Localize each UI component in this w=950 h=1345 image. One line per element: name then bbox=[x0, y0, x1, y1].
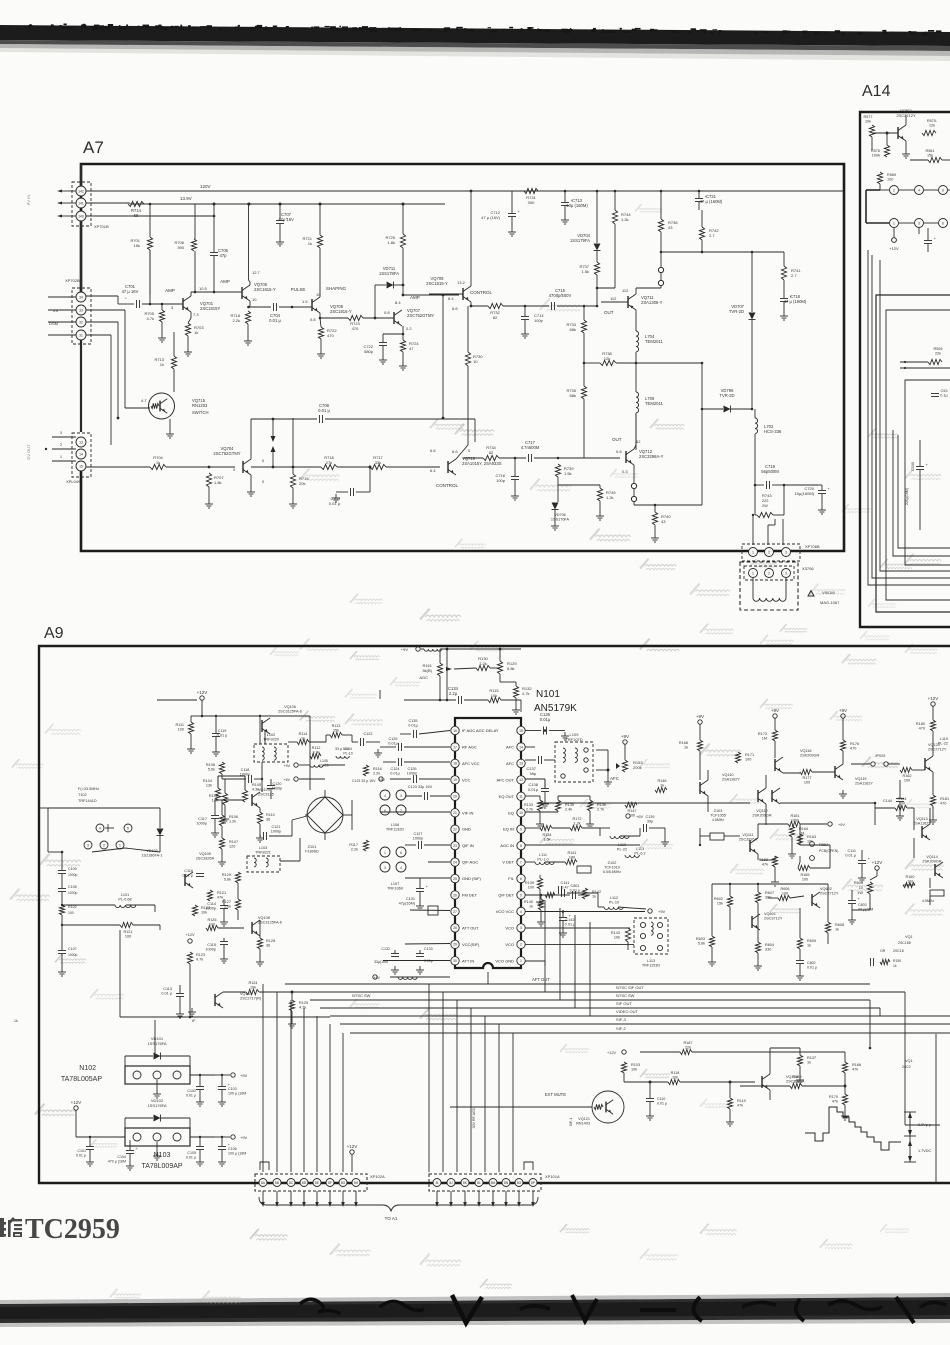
svg-text:8M: 8M bbox=[491, 1181, 496, 1185]
svg-text:1SS176FA: 1SS176FA bbox=[147, 1103, 166, 1108]
svg-text:47 μ (160M): 47 μ (160M) bbox=[784, 299, 807, 304]
svg-text:C126: C126 bbox=[407, 767, 416, 771]
wire l101 bbox=[62, 904, 115, 906]
svg-text:19: 19 bbox=[453, 778, 457, 782]
svg-text:R114: R114 bbox=[299, 732, 308, 736]
resistor R121a bbox=[207, 890, 212, 901]
open terminal circles bottom bbox=[631, 483, 636, 488]
svg-text:1.2k: 1.2k bbox=[606, 495, 614, 500]
wire VQ707 emitter bbox=[402, 326, 404, 334]
coil L101 bbox=[115, 905, 136, 908]
IC N101 pin 24 bbox=[451, 858, 459, 866]
wire r132 bbox=[500, 681, 516, 683]
connector XP101A pin 7 bbox=[515, 1179, 523, 1187]
svg-text:1SS176FA: 1SS176FA bbox=[147, 1041, 166, 1046]
resistor R113 bbox=[330, 732, 342, 737]
wire c530 bbox=[919, 440, 921, 466]
wire C707 bbox=[279, 204, 281, 220]
wire c136a bbox=[525, 730, 541, 732]
resistor R730 bbox=[465, 352, 470, 366]
svg-text:9: 9 bbox=[520, 828, 522, 832]
svg-text:2SC2712Y: 2SC2712Y bbox=[928, 748, 947, 752]
resistor R717 bbox=[370, 464, 386, 469]
svg-text:1k: 1k bbox=[529, 905, 533, 909]
resistor R162b bbox=[772, 856, 777, 867]
svg-text:PL-22: PL-22 bbox=[938, 742, 948, 746]
A14 inner box1 bbox=[876, 295, 950, 612]
resistor R706 bbox=[191, 239, 196, 251]
svg-text:C107: C107 bbox=[68, 947, 77, 951]
wire eq3 bbox=[600, 827, 610, 829]
capacitor C131 bbox=[416, 888, 424, 890]
svg-text:82: 82 bbox=[489, 450, 494, 455]
terminal +12V mute bbox=[622, 1050, 626, 1054]
resistor R606 bbox=[778, 895, 790, 900]
capacitor C803 bbox=[848, 900, 856, 902]
svg-text:13.2: 13.2 bbox=[457, 280, 466, 285]
wire VQ706 collector bbox=[319, 248, 321, 297]
wire a14 top bbox=[872, 132, 898, 134]
svg-text:R139: R139 bbox=[525, 881, 534, 885]
svg-text:C127: C127 bbox=[413, 832, 422, 836]
svg-text:15k: 15k bbox=[927, 154, 933, 158]
svg-text:6.6: 6.6 bbox=[452, 306, 458, 311]
svg-text:Mφ: Mφ bbox=[530, 771, 536, 776]
svg-text:36: 36 bbox=[266, 818, 270, 822]
svg-text:2SC752GTMY: 2SC752GTMY bbox=[213, 451, 240, 456]
resistor R725 bbox=[400, 234, 405, 248]
wires vq113 bbox=[875, 807, 895, 809]
svg-text:10: 10 bbox=[473, 359, 478, 364]
svg-text:33: 33 bbox=[79, 308, 83, 312]
transistor VQ114 bbox=[934, 864, 936, 876]
svg-text:C106: C106 bbox=[228, 1147, 237, 1151]
capacitor C121 bbox=[263, 832, 265, 840]
svg-text:AFT OUT: AFT OUT bbox=[532, 977, 550, 982]
svg-text:R127: R127 bbox=[222, 900, 231, 904]
svg-text:6.6: 6.6 bbox=[430, 448, 436, 453]
svg-text:5.6k: 5.6k bbox=[224, 905, 231, 909]
svg-text:2SC1815-Y: 2SC1815-Y bbox=[426, 281, 448, 286]
svg-text:1000p: 1000p bbox=[68, 953, 78, 957]
svg-text:10k: 10k bbox=[491, 693, 497, 698]
svg-text:VQ119: VQ119 bbox=[855, 777, 867, 781]
wire r114 r113 bbox=[288, 741, 297, 743]
resistor R168 bbox=[697, 740, 702, 751]
capacitor C705 bbox=[350, 488, 352, 496]
svg-text:10k: 10k bbox=[865, 120, 871, 124]
IC N101 pin 3 bbox=[517, 924, 525, 932]
svg-text:SIF-3: SIF-3 bbox=[616, 1017, 627, 1022]
svg-text:14: 14 bbox=[79, 452, 83, 456]
svg-text:R160: R160 bbox=[905, 875, 914, 879]
svg-text:NTSC SIF OUT: NTSC SIF OUT bbox=[616, 985, 644, 990]
terminal +9V a9l bbox=[294, 763, 298, 767]
svg-text:141: 141 bbox=[78, 201, 84, 205]
resistor R136 bbox=[587, 800, 592, 811]
svg-text:142: 142 bbox=[78, 189, 84, 193]
capacitor C132 C133 bbox=[391, 953, 399, 955]
svg-text:Z102: Z102 bbox=[608, 861, 617, 865]
svg-text:26: 26 bbox=[453, 893, 457, 897]
resistor R133 bbox=[537, 800, 542, 811]
svg-text:8G: 8G bbox=[341, 1181, 346, 1185]
wire r526 row bbox=[900, 361, 928, 363]
svg-text:+9V: +9V bbox=[401, 647, 409, 652]
svg-text:VCC(SIF): VCC(SIF) bbox=[462, 942, 480, 947]
IC N101 pin 29 bbox=[451, 940, 459, 948]
svg-text:VQ105: VQ105 bbox=[199, 852, 211, 856]
wire R725 bbox=[402, 204, 404, 234]
svg-text:2SA1162Y: 2SA1162Y bbox=[913, 822, 931, 826]
svg-text:XPL049: XPL049 bbox=[66, 479, 81, 484]
svg-text:100: 100 bbox=[887, 178, 893, 182]
wire c126 bbox=[390, 778, 411, 780]
wire n103 caps bbox=[89, 1137, 91, 1146]
capacitor C712 bbox=[508, 213, 516, 215]
svg-text:2: 2 bbox=[400, 809, 402, 813]
wire vq110 bbox=[699, 751, 701, 780]
coil L103 bbox=[247, 856, 280, 872]
svg-text:V901M: V901M bbox=[822, 590, 835, 595]
svg-text:PL-0.68: PL-0.68 bbox=[118, 898, 131, 902]
connector XP101A pin 8 bbox=[529, 1179, 537, 1187]
wire l103 cluster bbox=[280, 860, 300, 862]
svg-text:L102: L102 bbox=[267, 733, 275, 737]
svg-text:47μ 16V: 47μ 16V bbox=[278, 217, 294, 222]
junction dots A9 bbox=[544, 729, 547, 732]
svg-text:R171: R171 bbox=[745, 753, 754, 757]
wire mid cluster bbox=[221, 800, 223, 815]
svg-text:4.5MHz: 4.5MHz bbox=[922, 899, 934, 903]
resistor R143 bbox=[625, 928, 630, 942]
svg-text:0.01 μ: 0.01 μ bbox=[269, 318, 281, 323]
resistor R141 bbox=[565, 859, 577, 864]
resistor R576 bbox=[884, 145, 889, 157]
svg-text:10: 10 bbox=[519, 811, 523, 815]
svg-text:0.47: 0.47 bbox=[561, 886, 568, 890]
svg-text:3.3k: 3.3k bbox=[312, 751, 319, 755]
vco coil box L113 bbox=[634, 918, 668, 954]
svg-text:TRF8221: TRF8221 bbox=[255, 851, 271, 855]
svg-text:100: 100 bbox=[209, 923, 215, 927]
resistor R105 bbox=[242, 790, 247, 802]
svg-text:TA78L009AP: TA78L009AP bbox=[141, 1163, 182, 1170]
svg-text:R743: R743 bbox=[762, 493, 772, 498]
wire vq711 collector bbox=[635, 288, 637, 294]
svg-text:8A: 8A bbox=[261, 1181, 266, 1185]
svg-text:T102: T102 bbox=[78, 793, 87, 797]
wire c716 bbox=[514, 458, 516, 476]
svg-text:R118: R118 bbox=[671, 1071, 680, 1075]
IC N101 pin 17 bbox=[451, 743, 459, 751]
svg-text:+9V: +9V bbox=[284, 764, 291, 768]
svg-text:R147: R147 bbox=[627, 809, 636, 813]
svg-text:N101: N101 bbox=[536, 689, 560, 700]
resistor R721 bbox=[317, 235, 322, 248]
svg-text:100: 100 bbox=[904, 779, 910, 783]
capacitor C721 bbox=[695, 198, 703, 200]
a14 pin row 2 bbox=[890, 219, 899, 228]
svg-text:470 μ (16M: 470 μ (16M bbox=[108, 1159, 126, 1163]
wire bottom mid rail bbox=[120, 1016, 330, 1018]
resistor R722 bbox=[318, 327, 323, 339]
wire vq511 bbox=[871, 137, 873, 150]
resistor R704 bbox=[150, 464, 166, 469]
svg-text:10: 10 bbox=[252, 297, 257, 302]
connector XPL049 pin 15 bbox=[76, 461, 86, 471]
svg-text:100k: 100k bbox=[791, 819, 799, 823]
wire C705 bbox=[356, 491, 370, 493]
svg-text:C109: C109 bbox=[68, 867, 77, 871]
resistor R737 bbox=[594, 262, 599, 275]
svg-text:33 μ(16M: 33 μ(16M bbox=[858, 907, 873, 911]
svg-text:22k: 22k bbox=[794, 1080, 800, 1084]
svg-text:AMP: AMP bbox=[165, 288, 175, 293]
resistor R135 bbox=[555, 800, 560, 811]
wire pin3 pin2 bbox=[525, 927, 630, 929]
resistor R107 bbox=[219, 838, 224, 849]
terminal +6V a9l bbox=[294, 777, 298, 781]
wire r740 gnd bbox=[654, 525, 656, 534]
svg-text:VS: VS bbox=[53, 308, 59, 313]
svg-text:0.01 μ: 0.01 μ bbox=[329, 501, 341, 506]
svg-text:1.2k: 1.2k bbox=[479, 661, 487, 666]
signal row VIDEO OUT bbox=[330, 1015, 950, 1017]
wire row458 bbox=[463, 457, 483, 459]
svg-text:NTSC SW: NTSC SW bbox=[352, 993, 371, 998]
svg-text:100: 100 bbox=[125, 935, 131, 939]
resistor R153 bbox=[622, 760, 627, 772]
rail 13.9V wire bbox=[130, 203, 445, 205]
svg-text:C133: C133 bbox=[424, 947, 433, 951]
svg-text:8I: 8I bbox=[436, 1181, 439, 1185]
svg-text:1: 1 bbox=[752, 571, 754, 575]
open terminal circles top bbox=[658, 267, 663, 272]
capacitor C111 bbox=[858, 860, 866, 862]
connector XP701B pin 141 bbox=[76, 198, 86, 208]
svg-text:47k: 47k bbox=[762, 863, 768, 867]
wire vq118 bbox=[774, 741, 776, 758]
svg-text:47k: 47k bbox=[217, 896, 223, 900]
resistor R124 bbox=[246, 989, 259, 994]
svg-text:C801: C801 bbox=[570, 884, 579, 888]
svg-text:300: 300 bbox=[528, 200, 535, 205]
wire pin26 fm bbox=[410, 909, 450, 912]
junction dots on 13.9V rail bbox=[213, 203, 216, 206]
svg-text:+9V: +9V bbox=[658, 909, 666, 914]
connector X3706 inner row bbox=[744, 566, 794, 580]
svg-text:47 μ (16V): 47 μ (16V) bbox=[481, 215, 500, 220]
wire R705 bbox=[161, 304, 163, 310]
svg-text:100p: 100p bbox=[534, 318, 544, 323]
A14 loop wires bbox=[868, 250, 950, 585]
svg-text:VIF IN: VIF IN bbox=[462, 810, 473, 815]
connector XPL049 dashed box bbox=[72, 433, 91, 477]
svg-text:8H: 8H bbox=[354, 1181, 359, 1185]
svg-text:R111: R111 bbox=[175, 723, 184, 727]
svg-text:1.2k: 1.2k bbox=[621, 217, 629, 222]
svg-text:2SC3298A-Y: 2SC3298A-Y bbox=[639, 454, 664, 459]
IC N101 pin 28 bbox=[451, 924, 459, 932]
signal row NTSC SW bbox=[310, 999, 870, 1001]
svg-text:TRF9220: TRF9220 bbox=[263, 738, 279, 742]
terminal +6V eq bbox=[626, 814, 630, 818]
svg-text:VQ111: VQ111 bbox=[742, 833, 753, 837]
wire c118 bbox=[215, 799, 244, 801]
wire vq120 bbox=[932, 731, 934, 756]
svg-text:1000p: 1000p bbox=[407, 772, 418, 776]
svg-text:24: 24 bbox=[453, 860, 457, 864]
svg-text:2SC2712Y: 2SC2712Y bbox=[820, 892, 839, 896]
svg-text:SIF OUT: SIF OUT bbox=[616, 1001, 632, 1006]
wire c125 bbox=[380, 746, 396, 748]
svg-text:R110: R110 bbox=[266, 813, 275, 817]
svg-text:100: 100 bbox=[178, 728, 184, 732]
wire vq112 bbox=[540, 802, 750, 804]
svg-text:C115: C115 bbox=[207, 943, 216, 947]
IC N101 pin 12 bbox=[517, 776, 525, 784]
svg-text:C117: C117 bbox=[198, 817, 207, 821]
resistor R736 bbox=[658, 219, 663, 232]
svg-text:12: 12 bbox=[519, 778, 523, 782]
wire VQ705 emitter bbox=[249, 301, 251, 306]
wire R706 bbox=[194, 204, 196, 239]
svg-text:R121: R121 bbox=[123, 930, 132, 934]
resistor R110 bbox=[257, 812, 262, 824]
svg-text:47: 47 bbox=[409, 346, 414, 351]
svg-text:R576: R576 bbox=[871, 149, 880, 153]
svg-text:30: 30 bbox=[453, 959, 457, 963]
svg-text:2.2k: 2.2k bbox=[351, 848, 358, 852]
resistor R120 bbox=[235, 872, 240, 883]
svg-text:PL-6.2: PL-6.2 bbox=[634, 852, 645, 856]
svg-text:2SA1015Y, 2SA933S: 2SA1015Y, 2SA933S bbox=[462, 461, 502, 466]
svg-text:R606: R606 bbox=[780, 887, 789, 891]
svg-text:VD706: VD706 bbox=[554, 513, 566, 517]
regulator N103 body bbox=[125, 1128, 190, 1146]
IC N101 pin 30 bbox=[451, 957, 459, 965]
svg-text:15: 15 bbox=[79, 464, 83, 468]
IC N101 pin 10 bbox=[517, 809, 525, 817]
svg-text:82: 82 bbox=[493, 315, 498, 320]
svg-text:VQ601: VQ601 bbox=[764, 912, 776, 916]
resistor R114 a9 bbox=[297, 739, 309, 744]
wire vq111 em bbox=[757, 854, 759, 860]
wire pin22 gnd bbox=[424, 844, 450, 846]
resistor R126 bbox=[206, 925, 218, 930]
svg-text:VQ1: VQ1 bbox=[905, 1059, 913, 1063]
bottom black scanner bar bbox=[0, 1297, 950, 1323]
wire r601 c803 bbox=[876, 870, 878, 876]
svg-text:2SA1162Y: 2SA1162Y bbox=[855, 782, 873, 786]
wire vq709 collector bbox=[470, 191, 472, 286]
capacitor C119 bbox=[212, 733, 220, 735]
IC N101 pin 4 bbox=[517, 907, 525, 915]
svg-text:34: 34 bbox=[79, 295, 83, 299]
svg-text:47k: 47k bbox=[737, 1104, 743, 1108]
capacitor C113 bbox=[176, 993, 184, 995]
crystal Z102 bbox=[577, 866, 591, 873]
svg-text:4.7k: 4.7k bbox=[196, 958, 203, 962]
svg-text:+12V: +12V bbox=[872, 860, 883, 865]
terminal +12V n103 bbox=[74, 1106, 78, 1110]
connector XP706B pin 3 bbox=[782, 548, 791, 557]
transistor VQ710 bbox=[447, 461, 449, 473]
wire r715 bbox=[292, 418, 294, 474]
capacitor C134 bbox=[458, 696, 460, 704]
svg-text:1: 1 bbox=[893, 221, 895, 225]
svg-text:1.8k: 1.8k bbox=[214, 480, 222, 485]
svg-text:0.2: 0.2 bbox=[406, 326, 412, 331]
terminal +12V r bbox=[931, 702, 935, 706]
top black scanner bar bbox=[0, 25, 950, 46]
connector X3706 pin 3 bbox=[782, 569, 791, 578]
svg-text:QIF IN: QIF IN bbox=[462, 843, 474, 848]
svg-text:R126: R126 bbox=[207, 918, 216, 922]
svg-text:200k: 200k bbox=[633, 765, 642, 770]
svg-text:C135: C135 bbox=[408, 719, 417, 723]
connector XP706B dashed box bbox=[742, 544, 800, 561]
svg-text:XP102A: XP102A bbox=[370, 1174, 385, 1179]
diode VD707 bbox=[749, 313, 756, 320]
wire r741 c718 bbox=[783, 252, 785, 266]
resistor R187 bbox=[680, 1049, 692, 1054]
svg-text:0.1μ: 0.1μ bbox=[940, 394, 947, 398]
svg-text:33k: 33k bbox=[375, 460, 381, 465]
rail 120V wire bbox=[86, 190, 844, 192]
svg-text:R180: R180 bbox=[916, 722, 925, 726]
svg-text:470: 470 bbox=[850, 747, 856, 751]
svg-text:10.5: 10.5 bbox=[199, 286, 208, 291]
svg-text:2.2k: 2.2k bbox=[373, 772, 380, 776]
svg-text:8K: 8K bbox=[463, 1181, 468, 1185]
svg-text:PL-10: PL-10 bbox=[343, 751, 352, 755]
capacitor C141 bbox=[558, 886, 560, 894]
svg-text:47μ(16M): 47μ(16M) bbox=[399, 902, 416, 906]
crystal Z103 body bbox=[679, 877, 681, 879]
resistor R733 bbox=[581, 320, 586, 333]
svg-text:VQ113: VQ113 bbox=[916, 817, 928, 821]
svg-text:TEM2011: TEM2011 bbox=[645, 339, 664, 344]
svg-text:2: 2 bbox=[520, 943, 522, 947]
svg-text:1k: 1k bbox=[160, 362, 164, 367]
resistor R109 bbox=[219, 815, 224, 826]
svg-text:EXT MUTE: EXT MUTE bbox=[545, 1092, 566, 1097]
resistor R103mute bbox=[621, 1062, 626, 1073]
svg-text:R605: R605 bbox=[807, 939, 816, 943]
svg-text:7: 7 bbox=[520, 860, 522, 864]
wire pin140 right bbox=[86, 215, 214, 217]
svg-text:3: 3 bbox=[87, 843, 89, 847]
svg-text:47 μ 16V: 47 μ 16V bbox=[122, 289, 139, 294]
wire n102 out bbox=[190, 1074, 215, 1076]
svg-text:4.7k: 4.7k bbox=[522, 691, 530, 696]
terminal +9V r3 bbox=[841, 714, 845, 718]
resistor R742 bbox=[699, 227, 704, 240]
svg-text:1000p: 1000p bbox=[272, 787, 283, 791]
resistor R575 bbox=[922, 130, 936, 135]
capacitor C139 bbox=[643, 824, 645, 832]
svg-text:470: 470 bbox=[352, 326, 359, 331]
svg-text:AFC: AFC bbox=[506, 761, 514, 766]
resistor R701 bbox=[147, 237, 152, 250]
wire vq107 area bbox=[179, 985, 181, 993]
connector XP706B pin 2 bbox=[765, 548, 774, 557]
svg-text:R172: R172 bbox=[572, 817, 581, 821]
wires upper left cluster bbox=[191, 715, 202, 717]
wire r561 bbox=[910, 159, 928, 161]
